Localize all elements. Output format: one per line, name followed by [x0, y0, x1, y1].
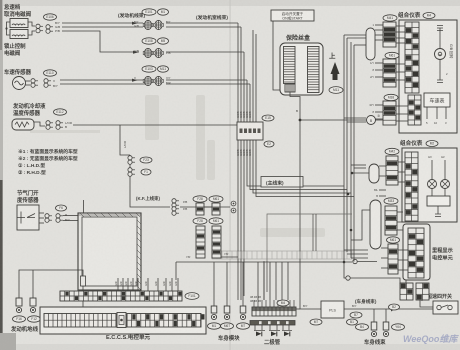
oval combination meter 2 [426, 141, 438, 147]
connector label M38 [384, 94, 398, 100]
wire drop Y64 [385, 309, 387, 322]
connector label M7b [310, 319, 322, 325]
wire to pill3 b [354, 167, 366, 169]
up arrow [331, 62, 340, 80]
tiny wire labels above strip [114, 281, 178, 286]
wire to pill3 a [351, 164, 366, 166]
scan gutter left edge [0, 0, 3, 350]
junction dot B [299, 119, 302, 122]
wire speedo pin3 [445, 107, 447, 119]
wire YR right [221, 256, 238, 258]
wire F28-M61 [204, 206, 212, 208]
plug F below [128, 156, 135, 165]
wire to ECU strip [177, 278, 179, 291]
odometer display ECU box [403, 224, 430, 280]
connector bottom right 1 [400, 283, 413, 300]
inline fuse link connector [211, 306, 217, 320]
wire drop to diode comb [269, 262, 271, 300]
wire to ECU strip [157, 278, 159, 291]
resistor dashes [437, 26, 443, 31]
wire L/OR branch down [120, 125, 130, 155]
tiny labels above diode comb [250, 295, 261, 303]
wire tps c [39, 222, 44, 224]
wire tps to shield [63, 215, 78, 217]
arrowhead row3 [132, 79, 138, 82]
wire to ECU strip [147, 278, 149, 291]
connector label M67 [221, 323, 234, 329]
wire to pill2 b [347, 253, 368, 255]
wire bundle v1 [237, 23, 239, 296]
wire drop body module 2 [242, 262, 244, 306]
connector label M1 [158, 9, 169, 15]
wire to Bnode b [347, 121, 366, 123]
connector label B4 [356, 324, 369, 330]
wire right bus 1 [343, 35, 345, 262]
vehicle speed PLS box [321, 301, 344, 318]
wire drop to diode comb [287, 262, 289, 300]
wire to pill1 a [344, 34, 366, 36]
wire to Bnode a [344, 117, 366, 119]
wire tps b [39, 217, 44, 219]
wire lamp2 down [444, 189, 446, 197]
junction dots on bus [351, 172, 354, 175]
wire speed sig [60, 79, 143, 81]
connector label B1 [347, 319, 358, 325]
plug circles at bundle [231, 201, 236, 206]
body fuse link [371, 322, 377, 337]
wire drop to diode comb [275, 262, 277, 300]
wire lamp1 down [431, 189, 433, 197]
wire comb to PLS stub [296, 308, 300, 310]
wire engine ground bus [19, 270, 83, 307]
wire B/Y to E101 [62, 22, 143, 24]
plug solenoids [36, 24, 43, 33]
wire ladder2 to switch [421, 300, 423, 301]
connector label E108 [142, 38, 156, 44]
page spine crease [229, 0, 232, 350]
ECU box E.C.C.S. control unit [40, 307, 206, 334]
faint main-harness connector strip [212, 251, 352, 259]
combination meter 2 box [402, 148, 457, 222]
wire plugs down to KF [130, 176, 170, 207]
connector meter1 main [405, 22, 419, 93]
wire to ECU strip [165, 278, 167, 291]
connector label B7 [350, 312, 362, 318]
connector label E2 [264, 141, 274, 147]
open junction circle [346, 276, 350, 280]
connector label F28 lower [193, 218, 207, 224]
oval combination meter 1 [423, 13, 435, 19]
wire to gauge B node [300, 119, 366, 121]
wire to pill1 b [347, 37, 366, 39]
wire big box left edge down [266, 261, 268, 292]
connector label E110 [44, 70, 57, 76]
inline relay box connector [237, 122, 263, 140]
wire ground 2 [32, 270, 34, 300]
wire drop to diode comb [257, 262, 259, 300]
speedometer gauge circle [435, 49, 446, 60]
ECU connector strip lower [44, 313, 205, 328]
wire sensor b [26, 84, 31, 86]
connector M42 [386, 156, 398, 185]
inline fuse link connector [224, 306, 230, 320]
plug E110 mate [44, 79, 51, 88]
wire bundle end2 [240, 296, 242, 300]
wire to ECU strip [132, 278, 134, 291]
wire ignition to fuse [273, 21, 286, 90]
warning lamp 1 [428, 180, 437, 189]
connector bottom right 2 [416, 283, 429, 300]
wire KF to bundle [180, 206, 230, 208]
connector label E103 [142, 66, 156, 72]
wire right bus 3 [350, 42, 352, 258]
bulkhead connector pair row3 [143, 76, 163, 85]
connector label F28 [193, 196, 207, 202]
plug F below 2 [128, 168, 135, 177]
wire B to M38 [376, 119, 384, 121]
connector M61b tall [388, 244, 398, 274]
vehicle speed sensor G1 [13, 77, 26, 90]
connector label M61b [387, 237, 400, 243]
inline fuse link connector [240, 306, 246, 320]
wire bundle v7 bend right [256, 34, 354, 197]
body fuse link [383, 322, 389, 337]
bulkhead connector pair row2 [143, 48, 163, 57]
plug kf harness 2 [172, 207, 179, 216]
plug E112 mate [56, 121, 63, 130]
wire bundle end1 [237, 296, 239, 300]
pill connector 1 [366, 28, 375, 60]
wire to pill1 c [354, 44, 366, 46]
wire L/OR long to relay box [73, 124, 237, 126]
wire down to ladder1 [405, 280, 407, 283]
connector label Y64 [392, 324, 405, 330]
bulkhead connector pair row1 [143, 20, 163, 29]
connector label M33 [384, 198, 398, 204]
connector M33 [385, 206, 397, 235]
diode pack comb strip [252, 300, 296, 316]
plug E106 mate [46, 25, 53, 34]
wire to ECU strip [127, 278, 129, 291]
lamp module box [427, 196, 450, 206]
connector label F23 [140, 157, 152, 163]
connector label E101 [142, 9, 156, 15]
arrowhead P/B [133, 51, 139, 54]
coolant temp sensor RT1 [12, 119, 34, 130]
wire S2 to plug [28, 31, 35, 35]
connector M38 [383, 101, 396, 125]
wire module down [437, 206, 439, 214]
wire inside box b [315, 214, 317, 251]
connector M61r [383, 59, 396, 87]
wire tps a [39, 212, 44, 214]
plug speed sensor [31, 79, 38, 88]
wire right bus 2 [346, 38, 348, 252]
wire bundle v4 bend right [247, 80, 344, 186]
wire stub down at 176 [175, 262, 177, 280]
wire right bus 4 [353, 45, 355, 262]
shield hatch top [80, 213, 140, 217]
wire junction to bottom ladder [350, 278, 400, 284]
main harness junction box outline [267, 214, 352, 261]
wire fuse feed down to PLS [290, 92, 321, 309]
connector label M7 [237, 323, 250, 329]
wire switch to ladder [420, 300, 433, 307]
wire to open junction [344, 262, 346, 278]
wire temp a [34, 122, 45, 126]
connector label B2 [389, 304, 400, 310]
ground terminal T1 [16, 298, 22, 313]
wire drop to diode comb [281, 262, 283, 300]
junction dot solenoid loop [5, 27, 7, 29]
connector label F12 [28, 316, 41, 322]
connector meter1 lower [408, 95, 421, 125]
wire drop to diode comb [263, 262, 265, 300]
wire S1 to plug [28, 22, 35, 26]
connector label M61r [385, 52, 399, 58]
plug kf harness [172, 199, 179, 208]
plug temp sensor [46, 121, 53, 130]
wire bundle v3 [243, 52, 245, 296]
resistor in ground lead [81, 276, 86, 286]
arrowhead row1 [132, 22, 138, 25]
M41 stubs [370, 23, 405, 43]
connector label F1 [141, 169, 151, 175]
main harness label box [261, 177, 303, 188]
connector label E106 [44, 14, 57, 20]
wire to ECU strip [171, 278, 173, 291]
overspeed warning switch [433, 301, 458, 314]
wire G/B [62, 26, 143, 28]
tiny wire labels above relay box [236, 111, 252, 118]
wire row3 to bundle [166, 79, 247, 81]
wire lamp1 up [431, 160, 433, 180]
connector F28 tall [196, 226, 205, 258]
ECU connector strip upper [60, 291, 182, 301]
wire solenoid left loop [7, 22, 11, 35]
connector label M42 [385, 148, 399, 154]
connector M61 tall [212, 226, 221, 258]
wire to ECU strip [137, 278, 139, 291]
plug tps [45, 214, 52, 223]
wire row1 to bundle [166, 22, 238, 24]
combination meter 1 box [399, 20, 457, 133]
wire to pill2 c [351, 257, 368, 259]
connector label M1 [208, 323, 221, 329]
wire PLS right [344, 308, 433, 310]
shielded cable area [78, 213, 141, 290]
speedometer box [424, 93, 450, 107]
diode pack lower strip with diodes [250, 321, 295, 337]
warning lamp 2 [441, 180, 450, 189]
plug tps mate [56, 214, 63, 223]
wire bus to pill3b [351, 210, 370, 240]
ground terminal T2 [30, 298, 36, 313]
throttle position sensor R2 [17, 205, 39, 230]
connector label M11b [329, 87, 343, 94]
wire sensor a [26, 80, 31, 82]
solenoid valve S1 (idle cancel) [10, 19, 28, 28]
connector label E15 [262, 115, 274, 121]
wire gauge up [439, 28, 441, 49]
connector label M4 [277, 300, 289, 306]
connector label E112 [54, 109, 67, 115]
fuse tab with hatch [285, 84, 295, 92]
wire bus to pill3a [352, 172, 369, 174]
connector label F6 [56, 205, 67, 211]
pill connector 3a [369, 164, 379, 183]
junction dots right bus [343, 261, 346, 264]
shield hatch right [137, 220, 141, 290]
faint show-through [30, 95, 325, 272]
wire row2 to bundle [166, 51, 244, 53]
wire bundle v5 bend right [250, 84, 347, 190]
wire inside box a [312, 214, 314, 251]
wire to pill2 a [344, 249, 368, 251]
connector meter2 main [405, 152, 418, 221]
fuse box [280, 43, 323, 95]
wire bundle v2 [240, 27, 242, 296]
wire speed gnd [60, 83, 148, 85]
open junction circle 2 [353, 259, 357, 263]
connector M41 [383, 22, 396, 47]
connector M61 upper [212, 203, 220, 215]
wire lamp2 up [444, 160, 446, 180]
wire speedo pin2 [436, 107, 438, 119]
connector label M41 [383, 15, 397, 21]
wire speedo pin1 [426, 107, 428, 119]
wire drop body module 0 [213, 262, 215, 306]
connector label M11 [158, 66, 169, 72]
connector label M61 [209, 196, 223, 202]
wire stub into shield box top [83, 200, 85, 215]
wire gauge down [439, 60, 441, 81]
wire horizontal under strip [176, 261, 352, 263]
wire row1b to bundle [166, 26, 241, 28]
connector F28 upper [196, 203, 204, 215]
connector odometer ECU [408, 228, 424, 278]
wire drop body module 1 [226, 262, 228, 306]
wire bundle v6 bend right [253, 30, 351, 193]
junction arrows on body harness wire [391, 307, 395, 312]
connector label F101 [185, 293, 199, 300]
solenoid valve S2 (lock-up control) [10, 30, 28, 39]
wire from open junction right [357, 261, 377, 263]
wire drop B4 [373, 309, 375, 322]
wire through plugs [129, 155, 131, 176]
wire second vertical [263, 261, 265, 300]
node B circle [367, 116, 376, 125]
connector label F16 [13, 316, 26, 322]
connector label M5 [158, 38, 169, 44]
wire tps to shield b [63, 220, 78, 222]
wire to ECU strip [117, 278, 119, 291]
tiny wire labels below relay box [236, 149, 252, 156]
connector label M61 lower [209, 218, 223, 224]
pill connector 3b [370, 200, 381, 249]
wire row3b to bundle [166, 83, 250, 85]
wire P/B bend [62, 31, 139, 52]
wire to ECU strip [122, 278, 124, 291]
ignition switch condition box [271, 10, 314, 21]
